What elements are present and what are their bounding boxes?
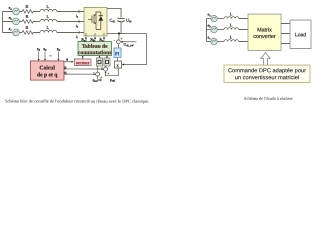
neutral bus (left) <box>3 11 13 32</box>
diode symbol inside converter <box>96 12 101 30</box>
svg-text:pref: pref <box>110 78 115 83</box>
svg-text:Sa: Sa <box>81 37 86 43</box>
svg-text:L: L <box>230 11 233 16</box>
svg-text:x2: x2 <box>43 47 47 52</box>
wire theta to secteur <box>64 61 73 63</box>
source Ec <box>13 29 20 36</box>
svg-text:Schéma bloc de contrôle de l'o: Schéma bloc de contrôle de l'onduleur co… <box>5 99 149 104</box>
wire phase c (right) <box>217 41 248 43</box>
neutral bus (right) <box>207 19 211 42</box>
svg-text:eb: eb <box>208 23 212 29</box>
svg-text:ec: ec <box>208 35 212 41</box>
wire dc top rail <box>107 8 121 17</box>
wire phase a <box>19 10 84 12</box>
inductor L phase a (right) <box>224 17 239 19</box>
calcul p q box <box>30 61 64 80</box>
matrix converter box <box>248 14 281 51</box>
svg-text:Udc_ref: Udc_ref <box>124 43 134 48</box>
svg-text:commutations: commutations <box>78 50 111 56</box>
node: Udc tap <box>118 32 120 34</box>
wire phase b <box>19 20 84 22</box>
wire Sb to converter <box>94 37 96 41</box>
svg-text:L: L <box>47 25 50 30</box>
wire phase b (right) <box>217 29 248 31</box>
svg-text:Tableau de: Tableau de <box>82 44 108 50</box>
current sensor ia <box>78 10 80 13</box>
wire multiplier output (p_ref) <box>106 68 119 76</box>
resistor R phase a <box>22 10 33 14</box>
wire Sc to converter <box>103 37 105 41</box>
resistor R phase c <box>22 31 33 35</box>
svg-text:R: R <box>26 14 29 19</box>
wire Udc feedback to multiplier <box>122 33 146 64</box>
svg-text:Load: Load <box>295 32 306 38</box>
svg-text:Sb: Sb <box>90 37 95 43</box>
svg-text:Sc: Sc <box>99 37 104 43</box>
svg-text:L: L <box>230 34 233 39</box>
svg-text:ic: ic <box>76 34 79 39</box>
svg-text:θ: θ <box>66 57 68 62</box>
wire q_ref input <box>97 77 99 79</box>
converter U1 (inverter box) <box>84 7 107 36</box>
svg-text:eb: eb <box>9 15 13 21</box>
wire q error up to hysteresis <box>97 66 99 72</box>
svg-text:Schéma de l'étude à réaliser: Schéma de l'étude à réaliser <box>244 96 293 101</box>
load box <box>290 20 311 49</box>
wire Sp to table <box>106 56 108 58</box>
svg-text:Commande DPC adaptée pour: Commande DPC adaptée pour <box>228 67 306 74</box>
wire Sq to table <box>98 56 100 58</box>
current sensor ic <box>78 31 80 34</box>
wire Udc_ref input <box>121 41 137 43</box>
svg-text:Matrix: Matrix <box>257 28 272 34</box>
wire p error up to hysteresis <box>105 66 107 67</box>
switching table box <box>78 41 112 55</box>
svg-text:R: R <box>26 4 29 9</box>
inductor L phase c <box>40 30 57 32</box>
svg-text:Cdc: Cdc <box>110 17 116 23</box>
svg-text:x1: x1 <box>37 47 41 52</box>
svg-text:PI: PI <box>115 51 120 56</box>
source Eb2 <box>211 26 217 32</box>
secteur box <box>74 59 91 66</box>
svg-text:...: ... <box>49 53 52 57</box>
svg-text:ec: ec <box>9 26 13 32</box>
summing junction p <box>104 67 108 71</box>
wire matrix out b <box>281 33 290 35</box>
svg-text:qref=0: qref=0 <box>92 78 101 83</box>
svg-text:L: L <box>47 4 50 9</box>
source Ea <box>13 8 20 15</box>
resistor R phase b <box>22 20 33 24</box>
inductor L phase c (right) <box>224 40 239 42</box>
svg-text:ia: ia <box>76 14 79 19</box>
converter bottom gate stubs <box>86 33 104 36</box>
regulator PI <box>114 48 121 58</box>
source Ec2 <box>211 38 217 44</box>
wire p from calcul <box>64 68 103 70</box>
wire x2 input <box>44 51 46 59</box>
svg-text:+: + <box>107 71 109 75</box>
wire matrix out a <box>281 23 290 25</box>
svg-text:ib: ib <box>76 24 79 29</box>
source Eb <box>13 18 20 25</box>
summing junction q <box>96 72 100 76</box>
wire Sa to converter <box>85 37 87 41</box>
wire PI to multiplier <box>116 57 118 61</box>
svg-text:-: - <box>114 38 115 42</box>
svg-text:ea: ea <box>208 12 212 18</box>
wire phase a (right) <box>217 18 248 20</box>
wire secteur to table <box>82 56 84 59</box>
wire x1 input <box>38 51 40 59</box>
summing junction Udc <box>117 40 121 44</box>
svg-text:un convertisseur matriciel: un convertisseur matriciel <box>235 74 299 81</box>
wire Udc measurement down <box>118 33 120 39</box>
wire q from calcul <box>64 73 95 75</box>
current sensor ib <box>78 20 80 23</box>
wire dc bottom rail <box>107 32 146 34</box>
wire junction to PI <box>117 44 119 48</box>
IGBT symbol inside converter <box>88 11 96 29</box>
svg-text:Udc: Udc <box>126 17 132 23</box>
source Ea2 <box>211 15 217 21</box>
hysteresis comparator Sq <box>96 58 102 66</box>
svg-text:L: L <box>230 22 233 27</box>
svg-text:L: L <box>47 14 50 19</box>
inductor L phase b (right) <box>224 28 239 30</box>
capacitor Cdc <box>117 17 124 19</box>
wire matrix out c <box>281 43 290 45</box>
svg-text:de p et q: de p et q <box>37 72 58 78</box>
wire xn input <box>57 51 59 59</box>
svg-text:secteur: secteur <box>76 60 90 65</box>
svg-text:xn: xn <box>57 47 61 52</box>
hysteresis comparator Sp <box>104 58 110 66</box>
svg-text:Calcul: Calcul <box>39 65 55 71</box>
wire phase c <box>19 31 84 33</box>
svg-text:+: + <box>121 37 123 41</box>
multiplier X <box>114 61 121 68</box>
inductor L phase b <box>40 19 57 21</box>
svg-text:ea: ea <box>9 5 13 11</box>
command DPC box <box>224 65 310 83</box>
block arrow command to matrix <box>261 53 270 66</box>
svg-text:converter: converter <box>253 34 276 40</box>
inductor L phase a <box>40 9 57 11</box>
svg-text:R: R <box>26 25 29 30</box>
